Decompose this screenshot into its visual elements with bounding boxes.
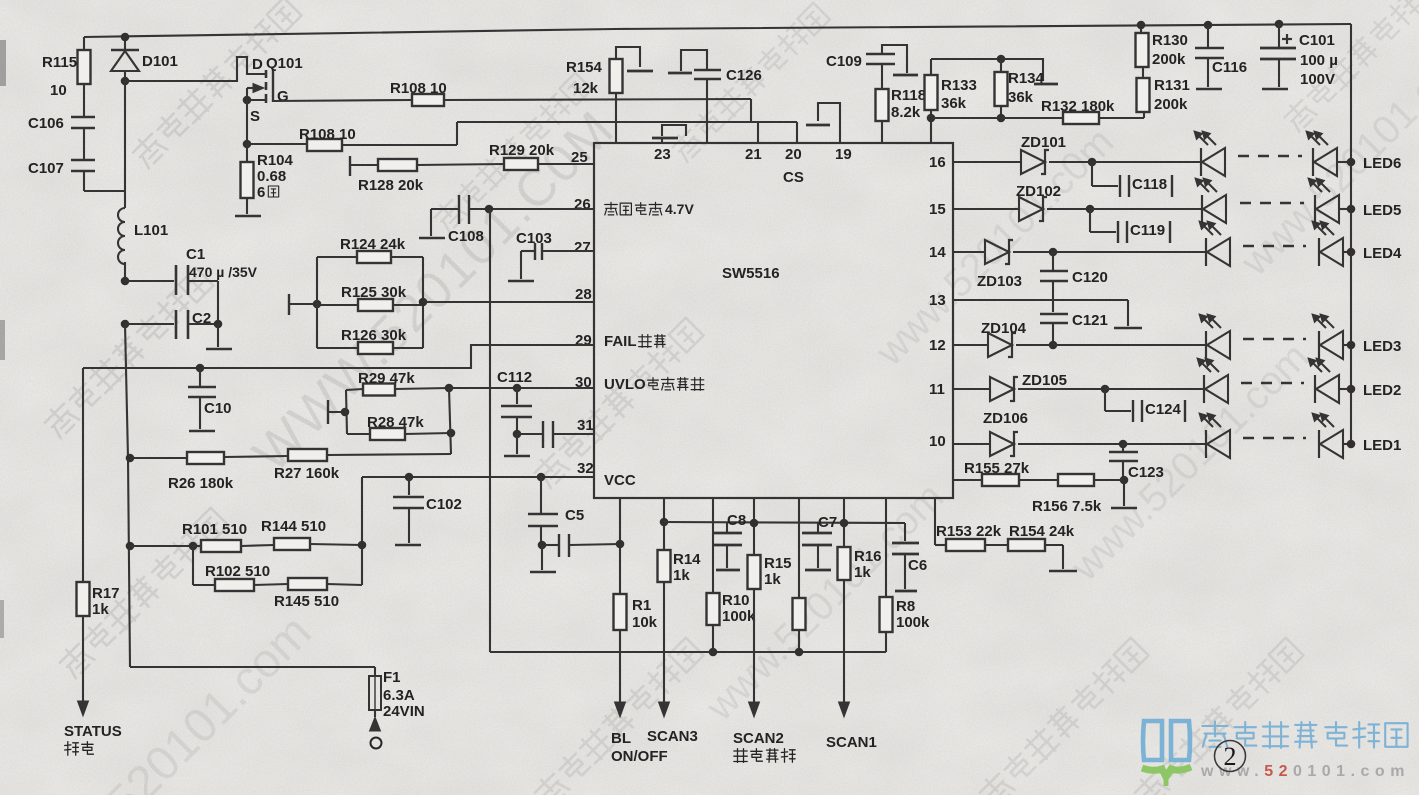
LED string row 5 xyxy=(1195,178,1355,223)
svg-text:C7: C7 xyxy=(818,514,837,531)
label LED5 xyxy=(1363,202,1401,219)
svg-text:R129 20k: R129 20k xyxy=(489,142,555,159)
svg-text:STATUS: STATUS xyxy=(64,723,122,740)
pin 31 C112 net xyxy=(497,369,594,454)
pin 32 VCC wire xyxy=(362,460,594,477)
svg-text:C8: C8 xyxy=(727,512,746,529)
svg-text:R144 510: R144 510 xyxy=(261,518,326,535)
label LED2 xyxy=(1363,382,1401,399)
svg-text:SCAN3: SCAN3 xyxy=(647,728,698,745)
svg-text:Q101: Q101 xyxy=(266,55,303,72)
wire pin column / resistor R10 100k xyxy=(707,498,757,652)
svg-text:C2: C2 xyxy=(192,310,211,327)
ground C112 xyxy=(504,455,530,458)
svg-text:ZD105: ZD105 xyxy=(1022,372,1067,389)
ground pin 13 xyxy=(1114,327,1142,330)
label reference voltage 4.7V xyxy=(605,201,695,217)
ground C123 xyxy=(1111,480,1137,508)
label LED4 xyxy=(1363,245,1402,262)
LED string row 2 xyxy=(1197,358,1355,403)
svg-text:C120: C120 xyxy=(1072,269,1108,286)
ground R154 xyxy=(1049,570,1077,573)
svg-text:LED3: LED3 xyxy=(1363,338,1401,355)
svg-text:28: 28 xyxy=(575,286,592,303)
scan artifact left edge xyxy=(0,40,6,638)
zener ZD104 xyxy=(981,320,1027,357)
pin 30 R29/R28 network xyxy=(328,370,594,454)
LED string row 3 xyxy=(1199,314,1355,359)
svg-text:100 µ: 100 µ xyxy=(1300,52,1338,69)
capacitor C123 xyxy=(1109,444,1164,484)
svg-text:C126: C126 xyxy=(726,67,762,84)
capacitor C107 xyxy=(28,160,95,191)
wire left sense column xyxy=(125,324,134,667)
resistor R134 36k xyxy=(995,59,1045,118)
inductor L101 xyxy=(118,191,168,281)
svg-text:C106: C106 xyxy=(28,115,64,132)
wire C107 to L101 column xyxy=(84,81,125,191)
pin 29 FAIL wire xyxy=(83,332,594,368)
LED string row 1 xyxy=(1199,413,1355,458)
svg-text:BL: BL xyxy=(611,730,631,747)
pin 19 label xyxy=(835,146,852,163)
svg-text:C5: C5 xyxy=(565,507,584,524)
pin 12 wire LED3 row xyxy=(929,337,1206,354)
svg-text:SCAN2: SCAN2 xyxy=(733,730,784,747)
svg-text:1k: 1k xyxy=(673,567,690,584)
LED string row 4 xyxy=(1199,221,1355,266)
jumper right of R134 xyxy=(1001,59,1058,84)
svg-text:C124: C124 xyxy=(1145,401,1182,418)
logo book icon xyxy=(1142,721,1191,786)
svg-text:S: S xyxy=(250,108,260,125)
node D101 anode / rail junction xyxy=(121,33,130,86)
wire CS net to pins 21/20 xyxy=(457,122,797,143)
wire right edge supply bus xyxy=(1350,24,1352,444)
wire scan filter row xyxy=(664,522,905,523)
ground C102 xyxy=(395,544,421,547)
label FAIL error xyxy=(604,333,665,350)
svg-text:C1: C1 xyxy=(186,246,205,263)
svg-text:C118: C118 xyxy=(1132,176,1167,193)
svg-text:R154 24k: R154 24k xyxy=(1009,523,1075,540)
svg-text:C116: C116 xyxy=(1212,59,1247,76)
svg-text:R29 47k: R29 47k xyxy=(358,370,415,387)
resistor R108 gate (top) xyxy=(274,80,751,106)
jumper above C109 xyxy=(882,45,918,75)
svg-text:36k: 36k xyxy=(1008,89,1034,106)
svg-text:R124 24k: R124 24k xyxy=(340,236,406,253)
label LED1 xyxy=(1363,437,1401,454)
resistors R101 510 / R144 510 row xyxy=(130,518,362,552)
svg-text:13: 13 xyxy=(929,292,946,309)
svg-text:200k: 200k xyxy=(1154,96,1188,113)
resistor R108 source (second) xyxy=(247,122,457,151)
ground C10 xyxy=(189,430,215,433)
svg-text:C107: C107 xyxy=(28,160,64,177)
pin 11 wire LED2 row xyxy=(929,381,1204,398)
capacitor C7 xyxy=(802,514,837,570)
svg-text:R102 510: R102 510 xyxy=(205,563,270,580)
svg-text:C119: C119 xyxy=(1130,222,1165,239)
svg-text:LED5: LED5 xyxy=(1363,202,1401,219)
svg-text:C101: C101 xyxy=(1299,32,1335,49)
SCAN3 output arrow xyxy=(647,702,698,745)
wire pin BL column / resistor R1 10k xyxy=(614,498,658,702)
svg-text:R15: R15 xyxy=(764,555,792,572)
svg-text:R1: R1 xyxy=(632,597,651,614)
capacitor C119 xyxy=(1090,208,1170,243)
logo site name text xyxy=(1202,722,1407,748)
wire pin SCAN1 column / resistor R16 1k xyxy=(838,498,882,702)
resistors R155 27k / R156 7.5k xyxy=(953,460,1124,515)
SCAN2 output arrow xyxy=(733,702,795,762)
svg-text:D: D xyxy=(252,56,263,73)
svg-text:2: 2 xyxy=(1224,742,1237,771)
jumper pin 19 xyxy=(806,103,840,142)
svg-text:LED6: LED6 xyxy=(1363,155,1401,172)
pin 20 label xyxy=(785,146,802,163)
capacitor C126 xyxy=(694,67,762,143)
node R133/R134 bottom rail xyxy=(927,114,1063,123)
svg-text:FAIL: FAIL xyxy=(604,333,637,350)
capacitor C1 470u/35V xyxy=(121,246,258,324)
svg-text:27: 27 xyxy=(574,239,591,256)
svg-text:200k: 200k xyxy=(1152,51,1186,68)
svg-text:C10: C10 xyxy=(204,400,232,417)
svg-text:R115: R115 xyxy=(42,54,77,71)
wire pin SCAN2 column / resistor R15 1k xyxy=(748,498,792,702)
jumper above R154 xyxy=(616,47,653,71)
svg-text:C123: C123 xyxy=(1128,464,1164,481)
wire pin SCAN3 column / resistor R14 1k xyxy=(658,498,702,702)
wire top supply rail xyxy=(84,24,1351,37)
capacitor C121 xyxy=(1040,312,1108,345)
svg-text:4.7V: 4.7V xyxy=(665,201,694,217)
svg-text:R131: R131 xyxy=(1154,77,1190,94)
svg-text:6: 6 xyxy=(257,184,265,201)
svg-text:ZD103: ZD103 xyxy=(977,273,1022,290)
svg-text:R118: R118 xyxy=(891,87,926,104)
svg-text:24VIN: 24VIN xyxy=(383,703,425,720)
SCAN1 output arrow xyxy=(826,702,877,751)
svg-text:10: 10 xyxy=(50,82,67,99)
svg-text:R27 160k: R27 160k xyxy=(274,465,340,482)
label CS xyxy=(783,169,804,186)
svg-text:31: 31 xyxy=(577,417,594,434)
pin 15 wire LED5 row xyxy=(929,201,1202,218)
svg-text:C112: C112 xyxy=(497,369,532,386)
transistor Q101 MOSFET xyxy=(125,55,303,125)
label UVLO undervoltage protect xyxy=(604,376,704,393)
capacitor C109 xyxy=(826,53,895,89)
svg-text:0.68: 0.68 xyxy=(257,168,286,185)
capacitor C116 xyxy=(1195,21,1247,87)
svg-text:R132 180k: R132 180k xyxy=(1041,98,1115,115)
connector 24V input arrow xyxy=(370,717,382,749)
svg-text:R145 510: R145 510 xyxy=(274,593,339,610)
svg-text:11: 11 xyxy=(929,381,945,398)
svg-text:10k: 10k xyxy=(632,614,658,631)
page number 2 circled xyxy=(1215,741,1246,772)
ground C101 xyxy=(1262,88,1288,91)
pin 25 R128/R129 net xyxy=(350,142,594,194)
node Q101 source xyxy=(243,96,252,149)
label LED3 xyxy=(1363,338,1401,355)
svg-text:21: 21 xyxy=(745,146,762,163)
svg-text:1k: 1k xyxy=(92,601,109,618)
capacitor C5 coupling to R1 node xyxy=(545,534,620,557)
IC U1 SW5516 xyxy=(594,143,953,498)
svg-text:SCAN1: SCAN1 xyxy=(826,734,877,751)
pin 26 C108 net xyxy=(431,195,594,245)
svg-text:R28 47k: R28 47k xyxy=(367,414,424,431)
zener ZD101 xyxy=(1021,134,1066,174)
ground C1/C2 xyxy=(206,324,232,349)
svg-text:ZD102: ZD102 xyxy=(1016,183,1061,200)
pin 13 wire to ground xyxy=(929,292,1128,326)
svg-text:C121: C121 xyxy=(1072,312,1108,329)
pin 28 R124/R125/R126 network xyxy=(289,236,594,354)
svg-text:12k: 12k xyxy=(573,80,599,97)
capacitor C124 xyxy=(1105,387,1185,422)
wire bottom ground rail xyxy=(490,648,886,657)
svg-text:D101: D101 xyxy=(142,53,178,70)
svg-text:R104: R104 xyxy=(257,152,294,169)
resistor R104 0.68 x6 xyxy=(241,144,294,214)
capacitor C106 xyxy=(28,84,95,160)
svg-text:20: 20 xyxy=(785,146,802,163)
ground C108 xyxy=(419,237,445,240)
svg-text:19: 19 xyxy=(835,146,852,163)
svg-text:ON/OFF: ON/OFF xyxy=(611,748,668,765)
zener ZD106 xyxy=(983,410,1028,456)
capacitor C120 xyxy=(1040,252,1108,312)
ground C116 xyxy=(1196,88,1222,91)
svg-text:R126 30k: R126 30k xyxy=(341,327,407,344)
svg-text:R17: R17 xyxy=(92,585,120,602)
resistor R118 8.2k xyxy=(876,87,927,143)
svg-text:UVLO: UVLO xyxy=(604,376,646,393)
svg-text:12: 12 xyxy=(929,337,946,354)
capacitor C2 xyxy=(121,310,223,339)
resistor R131 200k xyxy=(1137,67,1190,113)
svg-text:ZD104: ZD104 xyxy=(981,320,1027,337)
resistor R17 1k xyxy=(77,368,120,701)
label LED6 xyxy=(1363,155,1401,172)
label VCC xyxy=(604,472,636,489)
svg-text:G: G xyxy=(277,88,289,105)
jumper above C126 xyxy=(668,50,707,73)
wire R26/R27 row xyxy=(130,449,451,492)
svg-text:R153 22k: R153 22k xyxy=(936,523,1002,540)
zener ZD103 xyxy=(977,240,1022,290)
wire gate CS drop xyxy=(750,99,752,122)
svg-text:CS: CS xyxy=(783,169,804,186)
resistors R102 510 / R145 510 row xyxy=(193,546,362,610)
capacitor C8 xyxy=(712,512,746,570)
svg-text:C102: C102 xyxy=(426,496,462,513)
pin 14 wire LED4 row xyxy=(929,244,1206,261)
svg-text:ZD101: ZD101 xyxy=(1021,134,1066,151)
svg-text:SW5516: SW5516 xyxy=(722,265,780,282)
resistor R154 12k xyxy=(566,59,623,143)
node pin26 junction xyxy=(485,205,494,214)
svg-text:VCC: VCC xyxy=(604,472,636,489)
svg-text:LED1: LED1 xyxy=(1363,437,1401,454)
svg-text:LED2: LED2 xyxy=(1363,382,1401,399)
svg-text:1k: 1k xyxy=(764,571,781,588)
zener ZD102 xyxy=(1016,183,1061,221)
jumper pin 23 xyxy=(652,125,686,143)
svg-text:R134: R134 xyxy=(1008,70,1045,87)
svg-text:R130: R130 xyxy=(1152,32,1188,49)
svg-text:L101: L101 xyxy=(134,222,168,239)
svg-text:100V: 100V xyxy=(1300,71,1335,88)
svg-text:LED4: LED4 xyxy=(1363,245,1402,262)
svg-text:36k: 36k xyxy=(941,95,967,112)
svg-text:100k: 100k xyxy=(722,608,756,625)
svg-text:R133: R133 xyxy=(941,77,977,94)
svg-text:29: 29 xyxy=(575,332,592,349)
ground R104 xyxy=(235,215,261,218)
svg-text:15: 15 xyxy=(929,201,946,218)
STATUS output arrow xyxy=(64,701,122,755)
LED string row 6 xyxy=(1194,131,1355,176)
svg-text:32: 32 xyxy=(577,460,594,477)
ground C5 xyxy=(530,545,556,572)
capacitor C101 100u 100V electrolytic xyxy=(1260,20,1338,88)
svg-text:R26 180k: R26 180k xyxy=(168,475,234,492)
zener ZD105 xyxy=(990,372,1067,401)
svg-text:C6: C6 xyxy=(908,557,927,574)
wire pin column / unmarked resistor xyxy=(793,498,806,652)
pin 23 label xyxy=(654,146,671,163)
resistors R153 22k / R154 24k xyxy=(935,498,1075,569)
svg-text:ZD106: ZD106 xyxy=(983,410,1028,427)
wire VCC branch vertical xyxy=(358,477,367,585)
resistor R115 xyxy=(42,37,91,99)
capacitor C6 xyxy=(892,523,927,591)
capacitor C5 xyxy=(528,473,584,550)
svg-text:R16: R16 xyxy=(854,548,882,565)
svg-text:26: 26 xyxy=(574,196,591,213)
svg-text:1k: 1k xyxy=(854,564,871,581)
svg-text:R125 30k: R125 30k xyxy=(341,284,407,301)
resistor R130 200k xyxy=(1136,21,1188,68)
ground C103 xyxy=(508,280,534,283)
capacitor C118 xyxy=(1092,162,1172,197)
svg-text:6.3A: 6.3A xyxy=(383,687,415,704)
logo url text xyxy=(1200,763,1410,780)
BL output arrow xyxy=(611,702,668,765)
svg-text:R14: R14 xyxy=(673,551,701,568)
svg-text:R154: R154 xyxy=(566,59,603,76)
svg-text:16: 16 xyxy=(929,154,946,171)
svg-text:470 µ /35V: 470 µ /35V xyxy=(189,264,258,280)
svg-text:8.2k: 8.2k xyxy=(891,104,921,121)
wire pin column / resistor R8 100k xyxy=(880,498,931,652)
svg-text:R128 20k: R128 20k xyxy=(358,177,424,194)
svg-text:R8: R8 xyxy=(896,598,915,615)
svg-text:14: 14 xyxy=(929,244,946,261)
svg-text:R101 510: R101 510 xyxy=(182,521,247,538)
pin 16 wire LED6 row xyxy=(929,154,1201,171)
fuse F1 6.3A 24VIN xyxy=(130,667,425,720)
capacitor C10 xyxy=(188,364,232,429)
wire R133 top to R134 top xyxy=(931,55,1005,64)
svg-text:R10: R10 xyxy=(722,592,750,609)
resistor R132 180k xyxy=(1041,98,1144,124)
svg-text:R108 10: R108 10 xyxy=(390,80,447,97)
pin 10 wire LED1 row xyxy=(929,433,1206,450)
svg-text:C109: C109 xyxy=(826,53,862,70)
svg-text:C103: C103 xyxy=(516,230,552,247)
wire C108 junction down to bottom rail xyxy=(489,209,491,652)
capacitor C102 xyxy=(393,473,462,543)
diode D101 xyxy=(111,37,178,81)
svg-text:F1: F1 xyxy=(383,669,401,686)
svg-text:C108: C108 xyxy=(448,228,484,245)
pin 21 label xyxy=(745,146,762,163)
svg-text:R155 27k: R155 27k xyxy=(964,460,1030,477)
svg-text:R156 7.5k: R156 7.5k xyxy=(1032,498,1102,515)
resistor R133 36k xyxy=(925,59,977,143)
svg-text:100k: 100k xyxy=(896,614,930,631)
pin 27 C103 net xyxy=(516,230,594,279)
svg-text:10: 10 xyxy=(929,433,946,450)
svg-text:23: 23 xyxy=(654,146,671,163)
svg-text:R108 10: R108 10 xyxy=(299,126,356,143)
